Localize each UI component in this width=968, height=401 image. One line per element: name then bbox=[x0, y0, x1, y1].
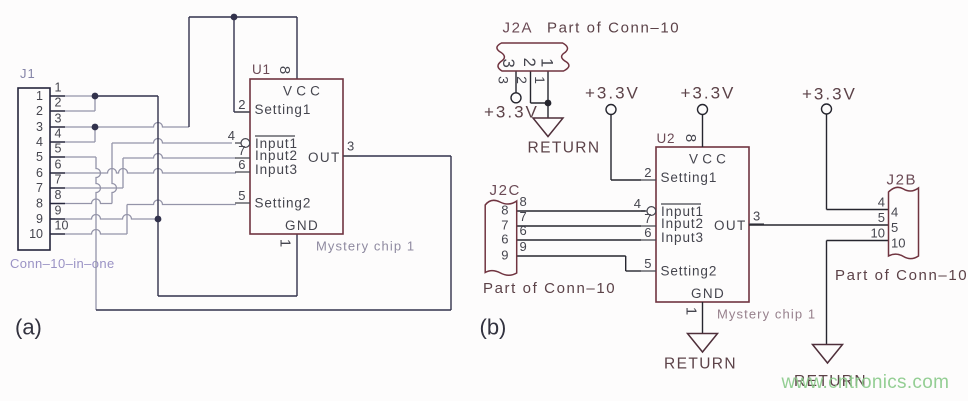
svg-text:J2A: J2A bbox=[503, 20, 534, 37]
svg-text:3: 3 bbox=[36, 120, 43, 134]
svg-text:3: 3 bbox=[347, 139, 354, 154]
svg-text:5: 5 bbox=[644, 256, 651, 271]
svg-text:6: 6 bbox=[644, 225, 651, 240]
svg-text:Setting1: Setting1 bbox=[661, 170, 718, 185]
svg-text:10: 10 bbox=[29, 227, 43, 241]
svg-text:U2: U2 bbox=[657, 131, 676, 146]
svg-text:Input2: Input2 bbox=[255, 148, 298, 163]
svg-text:5: 5 bbox=[55, 142, 62, 156]
svg-text:6: 6 bbox=[238, 157, 245, 172]
svg-text:5: 5 bbox=[891, 220, 898, 235]
svg-text:VCC: VCC bbox=[689, 152, 730, 167]
svg-text:7: 7 bbox=[501, 218, 508, 233]
svg-text:1: 1 bbox=[277, 239, 294, 247]
svg-text:4: 4 bbox=[878, 195, 885, 210]
svg-text:Setting1: Setting1 bbox=[255, 102, 312, 117]
svg-text:OUT: OUT bbox=[714, 218, 747, 233]
svg-text:4: 4 bbox=[228, 128, 235, 143]
svg-text:Setting2: Setting2 bbox=[661, 264, 718, 279]
svg-text:Input2: Input2 bbox=[661, 216, 704, 231]
svg-text:Input3: Input3 bbox=[255, 162, 298, 177]
svg-text:9: 9 bbox=[501, 248, 508, 263]
svg-text:+3.3V: +3.3V bbox=[484, 103, 539, 122]
svg-text:2: 2 bbox=[55, 96, 62, 110]
svg-text:9: 9 bbox=[36, 212, 43, 226]
svg-text:6: 6 bbox=[55, 158, 62, 172]
svg-text:5: 5 bbox=[36, 150, 43, 164]
svg-text:1: 1 bbox=[683, 307, 700, 315]
svg-text:9: 9 bbox=[55, 204, 62, 218]
svg-text:VCC: VCC bbox=[283, 84, 324, 99]
svg-text:J2C: J2C bbox=[490, 182, 521, 199]
svg-text:J2B: J2B bbox=[887, 172, 918, 189]
svg-text:7: 7 bbox=[520, 209, 527, 224]
svg-text:Part of Conn–10: Part of Conn–10 bbox=[835, 267, 968, 284]
svg-text:10: 10 bbox=[891, 236, 905, 251]
svg-text:Mystery chip 1: Mystery chip 1 bbox=[316, 239, 415, 254]
svg-text:RETURN: RETURN bbox=[528, 140, 601, 157]
svg-text:1: 1 bbox=[538, 58, 556, 67]
svg-text:1: 1 bbox=[532, 76, 548, 84]
svg-text:Part of Conn–10: Part of Conn–10 bbox=[483, 280, 616, 297]
svg-text:2: 2 bbox=[520, 58, 538, 67]
svg-text:6: 6 bbox=[36, 166, 43, 180]
svg-text:7: 7 bbox=[644, 211, 651, 226]
svg-text:2: 2 bbox=[36, 104, 43, 118]
svg-text:2: 2 bbox=[514, 76, 530, 84]
svg-text:(b): (b) bbox=[480, 315, 507, 340]
svg-text:GND: GND bbox=[285, 218, 319, 233]
svg-text:1: 1 bbox=[55, 81, 62, 95]
svg-text:3: 3 bbox=[496, 76, 512, 84]
svg-text:Setting2: Setting2 bbox=[255, 196, 312, 211]
svg-text:4: 4 bbox=[891, 205, 898, 220]
svg-text:Part of Conn–10: Part of Conn–10 bbox=[547, 20, 680, 37]
svg-text:+3.3V: +3.3V bbox=[681, 84, 736, 103]
svg-text:RETURN: RETURN bbox=[664, 356, 737, 373]
svg-text:8: 8 bbox=[501, 203, 508, 218]
svg-text:4: 4 bbox=[36, 135, 43, 149]
svg-text:Mystery chip 1: Mystery chip 1 bbox=[717, 307, 816, 322]
svg-text:8: 8 bbox=[276, 66, 293, 74]
svg-text:9: 9 bbox=[520, 239, 527, 254]
svg-text:GND: GND bbox=[691, 286, 725, 301]
svg-text:2: 2 bbox=[644, 165, 651, 180]
svg-text:3: 3 bbox=[499, 59, 517, 68]
svg-text:J1: J1 bbox=[20, 66, 36, 81]
svg-text:8: 8 bbox=[36, 196, 43, 210]
svg-text:7: 7 bbox=[55, 173, 62, 187]
svg-text:4: 4 bbox=[634, 196, 641, 211]
svg-text:U1: U1 bbox=[252, 62, 271, 77]
svg-text:10: 10 bbox=[871, 226, 885, 241]
svg-text:OUT: OUT bbox=[308, 150, 341, 165]
svg-text:7: 7 bbox=[36, 181, 43, 195]
svg-text:7: 7 bbox=[238, 143, 245, 158]
svg-text:2: 2 bbox=[238, 97, 245, 112]
svg-text:(a): (a) bbox=[15, 315, 42, 340]
svg-text:5: 5 bbox=[238, 188, 245, 203]
svg-text:6: 6 bbox=[501, 232, 508, 247]
svg-text:8: 8 bbox=[55, 188, 62, 202]
svg-text:10: 10 bbox=[55, 219, 69, 233]
svg-text:3: 3 bbox=[753, 209, 760, 224]
svg-text:3: 3 bbox=[55, 112, 62, 126]
svg-text:4: 4 bbox=[55, 127, 62, 141]
svg-text:8: 8 bbox=[682, 134, 699, 142]
svg-text:www.cntronics.com: www.cntronics.com bbox=[781, 372, 950, 393]
svg-text:Conn–10–in–one: Conn–10–in–one bbox=[10, 256, 115, 271]
svg-text:+3.3V: +3.3V bbox=[585, 84, 640, 103]
svg-text:+3.3V: +3.3V bbox=[802, 85, 857, 104]
svg-text:1: 1 bbox=[36, 89, 43, 103]
svg-text:5: 5 bbox=[878, 210, 885, 225]
svg-text:6: 6 bbox=[520, 223, 527, 238]
svg-text:Input3: Input3 bbox=[661, 230, 704, 245]
